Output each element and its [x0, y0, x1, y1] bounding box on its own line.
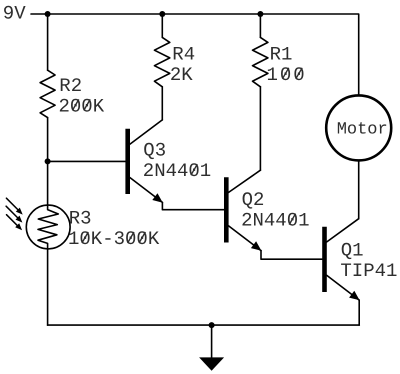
node 9V/R2 — [45, 11, 51, 17]
wire motor bottom to Q1 collector — [358, 160, 360, 218]
node R1 top — [257, 11, 263, 17]
resistor R2 — [40, 70, 55, 117]
zero in 2N4401 (Q2) — [289, 214, 295, 225]
wire node to R3 — [47, 161, 49, 205]
wire R2 top lead — [47, 14, 49, 70]
svg-text:R3: R3 — [69, 207, 92, 229]
resistor R4 — [154, 37, 169, 86]
wire Q3 emitter to Q2 base — [162, 202, 224, 209]
svg-text:2N4401: 2N4401 — [143, 160, 211, 182]
resistor R1 — [253, 37, 268, 86]
wire Q1 emitter to bottom rail — [358, 300, 360, 325]
svg-text:Q2: Q2 — [242, 189, 265, 211]
slashed zeros overlay — [72, 68, 302, 243]
wire 9V top rail — [31, 14, 359, 95]
svg-text:R1: R1 — [270, 43, 293, 65]
svg-text:Q3: Q3 — [143, 139, 166, 161]
svg-text:9V: 9V — [3, 3, 26, 25]
wire R3 bottom lead — [47, 249, 49, 325]
wire Q2 emitter to Q1 base — [261, 251, 322, 260]
zeros in 10K-300K — [82, 232, 88, 243]
svg-text:10K-300K: 10K-300K — [68, 228, 160, 250]
svg-text:200K: 200K — [59, 95, 105, 117]
photoresistor R3 circle — [26, 205, 70, 249]
wire R2 bottom to node — [47, 118, 49, 162]
node R4 top — [159, 11, 165, 17]
wire R1 bottom to Q2 collector — [259, 87, 261, 170]
wire bottom rail — [48, 324, 360, 326]
wire R4 bottom to Q3 collector — [161, 87, 163, 120]
zero in 2N4401 (Q3) — [191, 164, 197, 175]
svg-text:100: 100 — [267, 64, 307, 86]
ground — [199, 325, 224, 371]
wire R1 top lead — [259, 14, 261, 37]
svg-text:2K: 2K — [170, 64, 193, 86]
wire node to Q3 base — [48, 160, 126, 162]
node R2/R3/Q3 base — [45, 158, 51, 164]
svg-text:Motor: Motor — [337, 120, 388, 139]
svg-text:2N4401: 2N4401 — [241, 210, 309, 232]
svg-text:R4: R4 — [172, 43, 195, 65]
svg-text:Q1: Q1 — [341, 239, 364, 261]
zeros in 200K — [72, 99, 78, 110]
wire R4 top lead — [161, 14, 163, 37]
transistor Q1 — [325, 219, 360, 301]
transistor Q2 — [226, 170, 261, 251]
motor M1 — [326, 95, 391, 160]
light arrows into R3 — [6, 198, 23, 230]
photoresistor R3 zigzag — [38, 205, 58, 249]
transistor Q3 — [128, 120, 163, 203]
svg-text:R2: R2 — [59, 75, 82, 97]
svg-text:TIP41: TIP41 — [340, 260, 397, 282]
zeros in 100 — [282, 68, 288, 79]
node ground — [209, 322, 215, 328]
